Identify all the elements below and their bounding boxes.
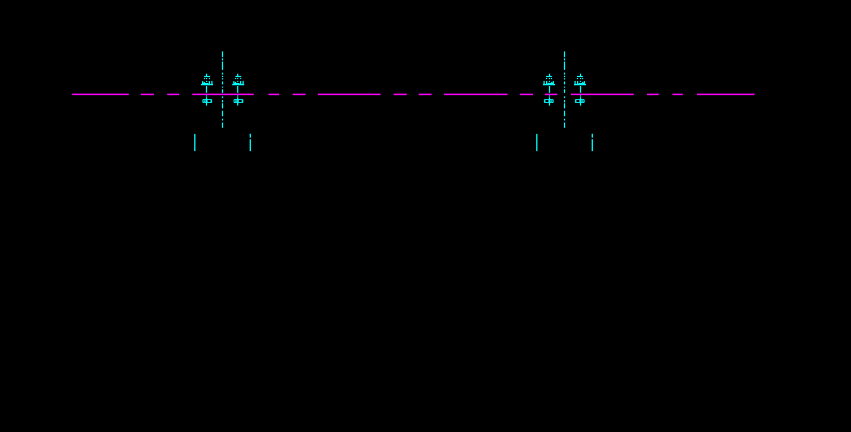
- pole 1 anchor bolt right: [232, 74, 244, 106]
- pole 1 anchor bolt left: [201, 74, 213, 106]
- pole 2 left edge line: [536, 134, 538, 151]
- pole 2 anchor bolt right (mirrored block): [574, 74, 586, 106]
- phantom survey centerline (magenta): [72, 93, 754, 95]
- pole 2 centerline: [564, 51, 566, 127]
- pole 2 anchor bolt left (mirrored block): [543, 74, 555, 106]
- pole 1 centerline: [222, 51, 224, 127]
- pole 1 left edge line: [194, 134, 196, 151]
- pole 2 right edge line (broken): [591, 134, 593, 151]
- pole 1 right edge line (broken): [249, 134, 251, 151]
